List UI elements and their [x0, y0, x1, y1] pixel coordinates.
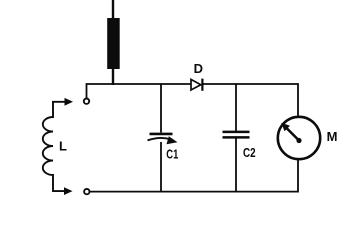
svg-text:C2: C2: [243, 145, 256, 160]
capacitor C1 (variable): [148, 84, 178, 192]
terminal J2 (bottom open circle): [84, 189, 89, 194]
wire top bus right segment: [203, 84, 299, 118]
capacitor C2: [223, 84, 250, 192]
svg-text:D: D: [194, 61, 203, 76]
wire antenna to node A: [112, 69, 114, 85]
wire top bus left segment: [87, 84, 192, 98]
terminal J1 (top open circle): [84, 99, 89, 104]
svg-text:M: M: [327, 129, 338, 144]
diode D: [191, 79, 202, 91]
meter M: [278, 117, 320, 159]
antenna rod A1: [107, 18, 120, 69]
svg-text:L: L: [59, 139, 67, 154]
arrow to bottom terminal: [64, 187, 73, 195]
arrow to top terminal: [65, 98, 74, 106]
inductor L: [43, 102, 66, 191]
svg-text:C1: C1: [166, 147, 178, 162]
antenna lead wire: [112, 0, 114, 19]
wire bottom bus: [90, 159, 298, 192]
